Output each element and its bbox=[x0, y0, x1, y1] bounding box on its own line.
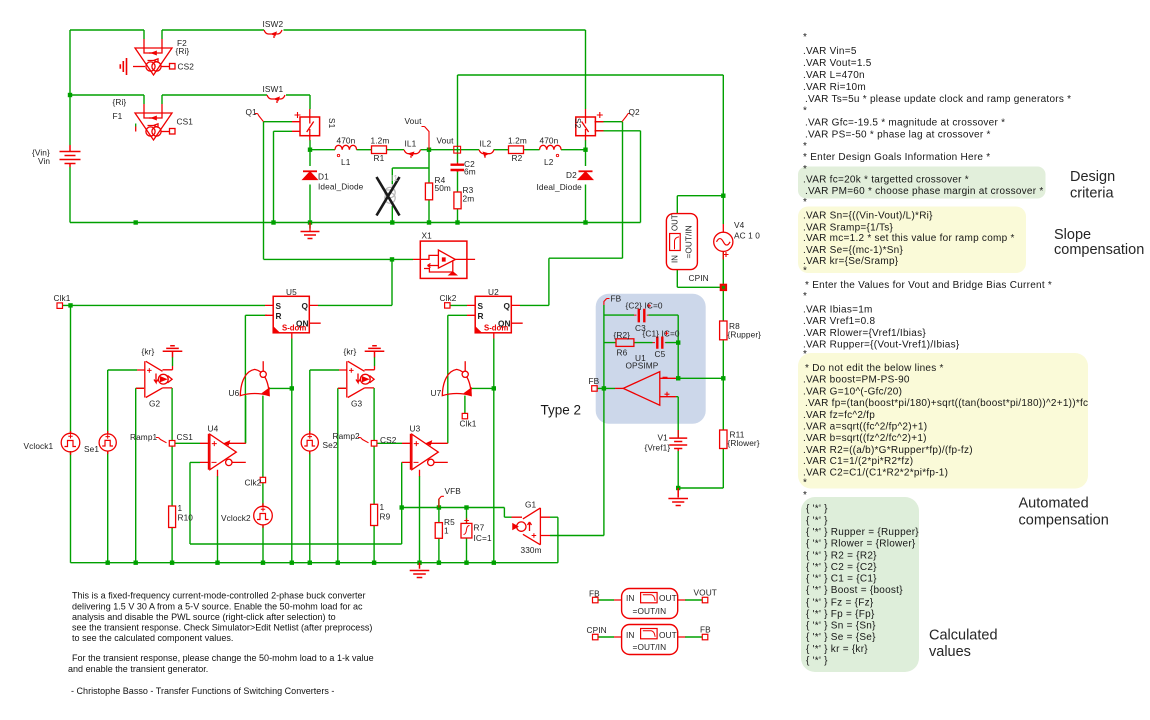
svg-text:{ '*' }: { '*' } bbox=[806, 515, 828, 526]
current source F2 (CCCS) bbox=[133, 39, 175, 75]
junction rail D2 bbox=[583, 220, 587, 224]
svg-text:.VAR Ts=5u * please update clo: .VAR Ts=5u * please update clock and ram… bbox=[805, 94, 1071, 105]
wire F1 sense loop drops bbox=[144, 95, 162, 104]
svg-text:{C1} IC=0: {C1} IC=0 bbox=[643, 329, 680, 339]
svg-text:1.2m: 1.2m bbox=[508, 136, 527, 146]
wire G1 upper input feed bbox=[504, 508, 511, 518]
junction FB node bbox=[602, 386, 606, 390]
svg-text:1: 1 bbox=[444, 526, 449, 536]
wire U4 minus input to VFB rail bbox=[190, 462, 402, 544]
svg-text:CPIN: CPIN bbox=[587, 625, 607, 635]
wire S1 bottom to SW1 node and D1 to rail bbox=[309, 140, 311, 229]
svg-text:.VAR C1=1/(2*pi*R2*fz): .VAR C1=1/(2*pi*R2*fz) bbox=[803, 456, 913, 467]
junction V4 top node bbox=[721, 194, 725, 198]
svg-text:values: values bbox=[929, 644, 971, 660]
wire feedback to minus input junction bbox=[677, 343, 679, 379]
wire U2 R input from U7 bbox=[448, 315, 467, 443]
annotation Design criteria bbox=[929, 169, 1144, 660]
svg-text:Q: Q bbox=[302, 301, 309, 311]
svg-text:Q: Q bbox=[504, 301, 511, 311]
junction bus R9 bbox=[372, 561, 376, 565]
inductor L2 bbox=[540, 145, 562, 149]
op-amp block X1 bbox=[413, 241, 475, 278]
svg-text:330m: 330m bbox=[521, 545, 542, 555]
junction Clk1 node bbox=[68, 303, 72, 307]
svg-text:Clk1: Clk1 bbox=[54, 293, 71, 303]
svg-text:{ '*' } kr = {kr}: { '*' } kr = {kr} bbox=[806, 644, 868, 655]
svg-text:2m: 2m bbox=[463, 194, 475, 204]
wire G3 output through CS2 and R9 to bus bbox=[373, 388, 375, 563]
svg-text:Slope: Slope bbox=[1054, 227, 1091, 243]
svg-text:D2: D2 bbox=[566, 170, 577, 180]
wire left vertical Vin bbox=[69, 30, 71, 223]
junction bus U3 pin ground bbox=[417, 561, 421, 565]
svg-text:{ '*' } R2 = {R2}: { '*' } R2 = {R2} bbox=[806, 550, 877, 561]
junction bus G3 minus bbox=[336, 561, 340, 565]
pulse source Vclock2 bbox=[254, 503, 273, 528]
pulse source Vclock1 bbox=[61, 431, 80, 455]
description paragraph bbox=[68, 590, 374, 696]
svg-text:G2: G2 bbox=[149, 399, 161, 409]
transfer block X2 (rotated OUT/IN) bbox=[666, 214, 697, 270]
resistor R6 bbox=[616, 339, 634, 347]
wire G2 ground stub bbox=[172, 357, 174, 366]
comparator U4 bbox=[200, 434, 246, 476]
wire R6 C5 feedback branch bbox=[604, 342, 678, 344]
wire U3 minus input down to VFB rail bbox=[401, 462, 403, 544]
svg-text:CS1: CS1 bbox=[177, 117, 194, 127]
svg-text:CS1: CS1 bbox=[177, 432, 194, 442]
svg-text:.VAR C2=C1/(C1*R2*2*pi*fp-1): .VAR C2=C1/(C1*R2*2*pi*fp-1) bbox=[803, 468, 948, 479]
wire L2 to SW2 node bbox=[561, 149, 586, 151]
svg-text:D1: D1 bbox=[318, 172, 329, 182]
svg-text:For the transient response, pl: For the transient response, please chang… bbox=[72, 653, 374, 663]
svg-text:IL2: IL2 bbox=[480, 139, 492, 149]
disabled marker X over I1 bbox=[377, 177, 400, 216]
svg-text:.VAR Ibias=1m: .VAR Ibias=1m bbox=[803, 304, 873, 315]
wire R2 to L2 bbox=[523, 149, 540, 151]
wire VFB rail bbox=[402, 507, 505, 509]
junction minus input node bbox=[676, 376, 680, 380]
svg-text:.VAR Ri=10m: .VAR Ri=10m bbox=[803, 82, 866, 93]
wire X1 input rail bbox=[264, 258, 414, 260]
node square CPIN bbox=[720, 284, 726, 290]
junction bus Se2 bbox=[308, 561, 312, 565]
svg-text:1: 1 bbox=[178, 503, 183, 513]
wire F1 CS to rail (green drawn red-stub join) bbox=[135, 124, 137, 127]
wire U6 right input down to Clk2 and Vclock2 bbox=[262, 396, 264, 563]
node square FB (bottom left) bbox=[593, 597, 599, 603]
SECTION: labels bbox=[24, 19, 762, 652]
svg-text:*: * bbox=[803, 490, 807, 501]
wire S2 lower control pin to rail bbox=[595, 131, 641, 223]
svg-text:FB: FB bbox=[611, 294, 622, 304]
wire CS1 node to U4 plus input bbox=[175, 442, 200, 444]
svg-text:CS2: CS2 bbox=[380, 435, 397, 445]
svg-text:470n: 470n bbox=[540, 136, 559, 146]
junction rail F1 bbox=[134, 220, 138, 224]
wire Vout sense top horizontal bbox=[458, 74, 724, 76]
junction rail D1 bbox=[308, 220, 312, 224]
wire ISW1 rail bbox=[70, 94, 310, 96]
svg-text:Vout: Vout bbox=[437, 136, 455, 146]
wire bottom OUT/IN block2 pins bbox=[598, 636, 702, 638]
svg-text:IC=1: IC=1 bbox=[474, 533, 492, 543]
svg-text:delivering 1.5 V 30 A from a 5: delivering 1.5 V 30 A from a 5-V source.… bbox=[72, 601, 363, 611]
svg-text:.VAR Vref1=0.8: .VAR Vref1=0.8 bbox=[803, 316, 875, 327]
svg-text:Ramp1: Ramp1 bbox=[130, 432, 158, 442]
wire G3 minus pin to bus bbox=[338, 388, 346, 562]
resistor R9 bbox=[371, 504, 378, 525]
node square CS1 bbox=[169, 441, 175, 447]
svg-text:Design: Design bbox=[1070, 169, 1115, 185]
pulse source Se1 bbox=[99, 431, 116, 454]
svg-text:*: * bbox=[803, 197, 807, 208]
gate U6 bbox=[240, 361, 269, 395]
ground below bus at U3 bbox=[410, 563, 430, 578]
svg-text:{ '*' }: { '*' } bbox=[806, 503, 828, 514]
wire CS2 node to U3 plus input bbox=[377, 442, 402, 444]
junction bus R5 bbox=[437, 561, 441, 565]
node square VOUT bbox=[702, 597, 708, 603]
wire U4 output up to U6 left input bbox=[245, 396, 247, 444]
wire U6 output bbox=[269, 387, 292, 389]
svg-text:S1: S1 bbox=[327, 118, 337, 129]
junction bus U2 bbox=[492, 561, 496, 565]
junction rail R3 bbox=[455, 220, 459, 224]
svg-text:Se2: Se2 bbox=[323, 440, 338, 450]
svg-text:Q1: Q1 bbox=[246, 107, 258, 117]
svg-text:.VAR Rupper={(Vout-Vref1)/Ibia: .VAR Rupper={(Vout-Vref1)/Ibias} bbox=[803, 339, 960, 350]
wire U7 right input down to Clk1 pin bbox=[464, 396, 466, 414]
resistor R3 bbox=[454, 192, 461, 209]
svg-text:U2: U2 bbox=[488, 287, 499, 297]
svg-text:S2: S2 bbox=[573, 118, 583, 129]
svg-text:.VAR fz=fc^2/fp: .VAR fz=fc^2/fp bbox=[803, 410, 875, 421]
resistor R5 bbox=[435, 523, 442, 539]
svg-text:.VAR kr={Se/Sramp}: .VAR kr={Se/Sramp} bbox=[803, 256, 899, 267]
node square CS2 bbox=[371, 441, 377, 447]
svg-text:{ '*' } C1 = {C1}: { '*' } C1 = {C1} bbox=[806, 574, 877, 585]
wire F2 sense loop drops bbox=[144, 30, 162, 39]
calculated values highlight box bbox=[801, 497, 919, 672]
svg-text:compensation: compensation bbox=[1054, 242, 1144, 258]
polarity dot L1 bbox=[337, 154, 339, 156]
node square Clk1 (left pin) bbox=[57, 303, 63, 309]
svg-text:S-dom: S-dom bbox=[282, 324, 306, 333]
SECTION: components bbox=[57, 30, 733, 655]
svg-text:see the transient response. Ch: see the transient response. Check Simula… bbox=[72, 623, 372, 633]
wire FB node up to hook and C3 branch bbox=[603, 305, 605, 388]
svg-text:{Ri}: {Ri} bbox=[113, 97, 127, 107]
svg-text:{ '*' } C2 = {C2}: { '*' } C2 = {C2} bbox=[806, 562, 877, 573]
wire SW1 node to L1 bbox=[310, 149, 335, 151]
junction SW2 node bbox=[583, 148, 587, 152]
svg-text:VFB: VFB bbox=[445, 486, 462, 496]
svg-text:Vin: Vin bbox=[38, 156, 50, 166]
wire U1 minus input row to divider node bbox=[676, 377, 723, 379]
disabled source I1 (gray) bbox=[385, 184, 395, 206]
op-amp U1 OPSIMP bbox=[615, 372, 676, 406]
svg-text:{Rlower}: {Rlower} bbox=[728, 438, 760, 448]
svg-text:IN: IN bbox=[626, 593, 635, 603]
svg-text:{ '*' } Fz = {Fz}: { '*' } Fz = {Fz} bbox=[806, 597, 874, 608]
wire C3 feedback branch bbox=[604, 315, 678, 343]
svg-text:*: * bbox=[803, 266, 807, 277]
svg-text:.VAR a=sqrt((fc^2/fp^2)+1): .VAR a=sqrt((fc^2/fp^2)+1) bbox=[803, 421, 927, 432]
junction VFB rail left bbox=[400, 505, 404, 509]
svg-text:{Ri}: {Ri} bbox=[176, 46, 190, 56]
svg-text:FB: FB bbox=[589, 376, 600, 386]
svg-text:R9: R9 bbox=[380, 512, 391, 522]
VCCS G3 bbox=[338, 361, 375, 397]
svg-text:Clk2: Clk2 bbox=[440, 293, 457, 303]
svg-text:50m: 50m bbox=[435, 183, 451, 193]
svg-text:OUT: OUT bbox=[659, 593, 677, 603]
svg-text:Se1: Se1 bbox=[84, 444, 99, 454]
svg-text:.VAR Vout=1.5: .VAR Vout=1.5 bbox=[803, 58, 872, 69]
svg-text:Clk1: Clk1 bbox=[460, 419, 477, 429]
svg-text:This is a fixed-frequency curr: This is a fixed-frequency current-mode-c… bbox=[72, 590, 366, 600]
pin hook VFB bbox=[439, 496, 444, 507]
svg-text:G3: G3 bbox=[351, 399, 363, 409]
junction U7 output node bbox=[492, 386, 496, 390]
svg-text:.VAR Sramp={1/Ts}: .VAR Sramp={1/Ts} bbox=[803, 222, 894, 233]
wire Clk1 rail to U5 S input bbox=[63, 304, 266, 306]
wire U5 bottom pin to U6 output junction to bus bbox=[291, 339, 293, 563]
svg-text:R: R bbox=[276, 311, 282, 321]
svg-text:* Do not edit the below lines: * Do not edit the below lines * bbox=[805, 363, 944, 374]
wire L1 to R1 bbox=[357, 149, 372, 151]
capacitor C5 bbox=[657, 337, 662, 349]
svg-text:*: * bbox=[803, 478, 807, 489]
svg-text:Vclock1: Vclock1 bbox=[24, 441, 54, 451]
svg-text:470n: 470n bbox=[337, 136, 356, 146]
svg-text:Ideal_Diode: Ideal_Diode bbox=[318, 182, 364, 192]
pin hook Q2 bbox=[622, 114, 631, 122]
ground at F2 (rotated) bbox=[120, 58, 126, 75]
junction rail S1 control bbox=[271, 220, 275, 224]
svg-text:*: * bbox=[803, 291, 807, 302]
svg-text:U3: U3 bbox=[410, 424, 421, 434]
node marker Vout square bbox=[454, 146, 461, 153]
node square Clk1 (lower) bbox=[462, 413, 467, 418]
junction VFB-R7 bbox=[464, 505, 468, 509]
wire Se2 branch to G3 plus input bbox=[310, 370, 339, 563]
junction U6 output node bbox=[290, 386, 294, 390]
ground below V1 bbox=[668, 488, 688, 506]
wire U4 bottom pin to bus bbox=[217, 476, 219, 563]
svg-text:.VAR Vin=5: .VAR Vin=5 bbox=[803, 46, 857, 57]
design criteria highlight box bbox=[798, 167, 1046, 199]
current probe IL2 bbox=[479, 150, 494, 158]
flip-flop U5 bbox=[265, 296, 321, 338]
svg-text:.VAR Se={(mc-1)*Sn}: .VAR Se={(mc-1)*Sn} bbox=[803, 245, 903, 256]
wire G1 output to bus bbox=[550, 517, 558, 563]
wire VFB pin drop to R5 and R7 bbox=[439, 499, 467, 563]
wire S1 lower control pin to rail bbox=[274, 131, 293, 222]
svg-text:Vout: Vout bbox=[405, 116, 423, 126]
svg-text:*: * bbox=[803, 106, 807, 117]
svg-text:.VAR G=10^(-Gfc/20): .VAR G=10^(-Gfc/20) bbox=[803, 387, 902, 398]
ground below D1 bbox=[301, 232, 320, 239]
svg-text:*: * bbox=[803, 141, 807, 152]
wire R1 to IL1 probe bbox=[387, 149, 405, 151]
switch S2 bbox=[576, 109, 604, 140]
wire I1 branch bbox=[392, 168, 429, 223]
diode D2 bbox=[579, 171, 593, 179]
svg-text:.VAR mc=1.2 * set this value f: .VAR mc=1.2 * set this value for ramp co… bbox=[803, 233, 1015, 244]
node square Clk2 (U2 pin) bbox=[445, 303, 450, 308]
svg-text:compensation: compensation bbox=[1019, 513, 1109, 529]
svg-text:{ '*' } Se = {Se}: { '*' } Se = {Se} bbox=[806, 632, 876, 643]
junction bus G2 minus bbox=[134, 561, 138, 565]
svg-text:.VAR Gfc=-19.5 * magnitude at: .VAR Gfc=-19.5 * magnitude at crossover … bbox=[805, 118, 1005, 129]
svg-text:1.2m: 1.2m bbox=[371, 136, 390, 146]
pin hook Ramp1 bbox=[156, 438, 167, 443]
svg-text:X1: X1 bbox=[422, 231, 433, 241]
svg-text:criteria: criteria bbox=[1070, 186, 1114, 202]
wire U2 bottom pin to U7 output junction to bus bbox=[493, 339, 495, 563]
junction bus U5 bbox=[290, 561, 294, 565]
wire V1 ground link bbox=[678, 487, 723, 489]
resistor R2 bbox=[509, 146, 524, 154]
svg-text:* Enter Design Goals Informati: * Enter Design Goals Information Here * bbox=[803, 152, 990, 163]
svg-text:G1: G1 bbox=[525, 500, 537, 510]
VCCS G1 bbox=[512, 508, 551, 545]
svg-text:.VAR PM=60 * choose phase marg: .VAR PM=60 * choose phase margin at cros… bbox=[805, 186, 1044, 197]
svg-text:R10: R10 bbox=[178, 513, 194, 523]
capacitor C3 bbox=[639, 309, 645, 323]
SECTION: junction dots bbox=[68, 93, 726, 565]
svg-text:AC 1 0: AC 1 0 bbox=[734, 231, 760, 241]
node square FB (compensator input) bbox=[592, 386, 598, 392]
resistor R10 bbox=[169, 506, 176, 528]
junction rail I1 bbox=[390, 220, 394, 224]
svg-text:{ '*' } Fp = {Fp}: { '*' } Fp = {Fp} bbox=[806, 609, 875, 620]
svg-text:L2: L2 bbox=[544, 157, 554, 167]
wire FB pin to op-amp U1 output node bbox=[597, 387, 615, 389]
wire IL2 to R2 bbox=[494, 149, 510, 151]
svg-text:Q2: Q2 bbox=[629, 107, 641, 117]
wire G2 output through CS1 and R10 to bus bbox=[171, 388, 173, 563]
current probe IL1 bbox=[404, 150, 421, 158]
node square Clk2 (lower) bbox=[260, 477, 265, 482]
wire bottom OUT/IN block1 pins bbox=[598, 599, 702, 601]
diode D1 bbox=[303, 171, 317, 179]
wire U7 output bbox=[471, 387, 494, 389]
svg-text:.VAR fp=(tan(boost*pi/180)+sqr: .VAR fp=(tan(boost*pi/180)+sqrt((tan(boo… bbox=[805, 398, 1088, 409]
svg-text:.VAR L=470n: .VAR L=470n bbox=[803, 70, 865, 81]
svg-text:VOUT: VOUT bbox=[694, 588, 717, 598]
wire IL1 to Vout node to C2 branch bbox=[421, 150, 458, 163]
pulse source Se2 bbox=[301, 431, 318, 454]
wire Q2 gate node bbox=[520, 122, 623, 306]
svg-text:{Vref1}: {Vref1} bbox=[645, 443, 671, 453]
junction Vin-ISW1 bbox=[68, 93, 72, 97]
junction bus U4 pin bbox=[215, 561, 219, 565]
junction VFB-R5 bbox=[437, 505, 441, 509]
svg-text:to see the calculated componen: to see the calculated component values. bbox=[72, 633, 233, 643]
svg-text:R1: R1 bbox=[374, 153, 385, 163]
junction bus Se1 bbox=[106, 561, 110, 565]
svg-text:.VAR Rlower={Vref1/Ibias}: .VAR Rlower={Vref1/Ibias} bbox=[803, 328, 926, 339]
junction rail R4 bbox=[427, 220, 431, 224]
resistor R8 bbox=[720, 321, 727, 340]
wire ground rail bottom of power stage bbox=[70, 222, 641, 224]
svg-text:Clk2: Clk2 bbox=[245, 478, 262, 488]
svg-text:Calculated: Calculated bbox=[929, 628, 998, 644]
comparator U3 bbox=[402, 434, 448, 476]
svg-text:{ '*' } Boost = {boost}: { '*' } Boost = {boost} bbox=[806, 585, 903, 596]
svg-text:R6: R6 bbox=[617, 348, 628, 358]
pin hook FB top bbox=[604, 299, 610, 306]
resistor R1 bbox=[372, 146, 387, 154]
svg-text:.VAR fc=20k * targetted crosso: .VAR fc=20k * targetted crossover * bbox=[803, 174, 969, 185]
svg-text:.VAR PS=-50 * phase lag at cro: .VAR PS=-50 * phase lag at crossover * bbox=[805, 130, 991, 141]
svg-text:=OUT/IN: =OUT/IN bbox=[633, 642, 667, 652]
wire G3 ground stub bbox=[374, 357, 376, 366]
svg-text:S: S bbox=[276, 301, 282, 311]
svg-text:ISW2: ISW2 bbox=[263, 19, 284, 29]
pin hook Vout bbox=[422, 127, 430, 150]
wire logic ground bus bbox=[71, 562, 558, 564]
svg-text:=OUT/IN: =OUT/IN bbox=[685, 225, 694, 258]
wire G1 plus input to FB node bbox=[550, 388, 604, 535]
svg-text:Vclock2: Vclock2 bbox=[221, 513, 251, 523]
ground above G2 (inverted) bbox=[163, 346, 183, 358]
junction V1 ground node bbox=[676, 486, 680, 490]
svg-text:V1: V1 bbox=[658, 433, 669, 443]
wire Q1 gate node bbox=[264, 122, 293, 260]
resistor R4 bbox=[425, 183, 432, 200]
svg-text:ISW1: ISW1 bbox=[263, 84, 284, 94]
svg-text:FB: FB bbox=[589, 589, 600, 599]
node square FB (bottom right) bbox=[702, 634, 708, 640]
svg-text:CS2: CS2 bbox=[178, 62, 195, 72]
junction bus R7 bbox=[464, 561, 468, 565]
svg-text:=OUT/IN: =OUT/IN bbox=[633, 606, 667, 616]
svg-text:Ideal_Diode: Ideal_Diode bbox=[537, 182, 583, 192]
wire Vclock1 branch bbox=[70, 305, 72, 562]
junction X1 input node bbox=[390, 257, 394, 261]
svg-text:Automated: Automated bbox=[1019, 496, 1089, 512]
svg-text:*: * bbox=[803, 164, 807, 175]
sine source V4 bbox=[714, 224, 733, 259]
wire G2 minus pin to bus bbox=[136, 388, 144, 562]
svg-text:.VAR b=sqrt((fz^2/fc^2)+1): .VAR b=sqrt((fz^2/fc^2)+1) bbox=[803, 433, 927, 444]
svg-text:F1: F1 bbox=[113, 111, 123, 121]
current source F1 (CCCS) bbox=[135, 104, 175, 140]
svg-text:OUT: OUT bbox=[659, 630, 677, 640]
junction bus R10 bbox=[170, 561, 174, 565]
gate U7 bbox=[442, 361, 471, 395]
svg-text:IN: IN bbox=[626, 630, 635, 640]
svg-text:FB: FB bbox=[700, 625, 711, 635]
svg-text:S-dom: S-dom bbox=[484, 324, 508, 333]
svg-text:{R2}: {R2} bbox=[614, 330, 631, 340]
current probe ISW1 bbox=[267, 95, 285, 103]
wire Vout node down R4 branch bbox=[428, 150, 430, 223]
wire V4 branch vertical bbox=[722, 75, 724, 488]
slope compensation highlight box bbox=[798, 207, 1026, 274]
svg-text:{ '*' } Rlower = {Rlower}: { '*' } Rlower = {Rlower} bbox=[806, 539, 916, 550]
transfer block bottom 2 (CPIN to FB) bbox=[614, 625, 685, 655]
svg-text:IN: IN bbox=[671, 255, 680, 263]
junction bus Vclock2 bbox=[261, 561, 265, 565]
svg-text:U7: U7 bbox=[431, 388, 442, 398]
pin hook Q1 bbox=[255, 114, 264, 122]
